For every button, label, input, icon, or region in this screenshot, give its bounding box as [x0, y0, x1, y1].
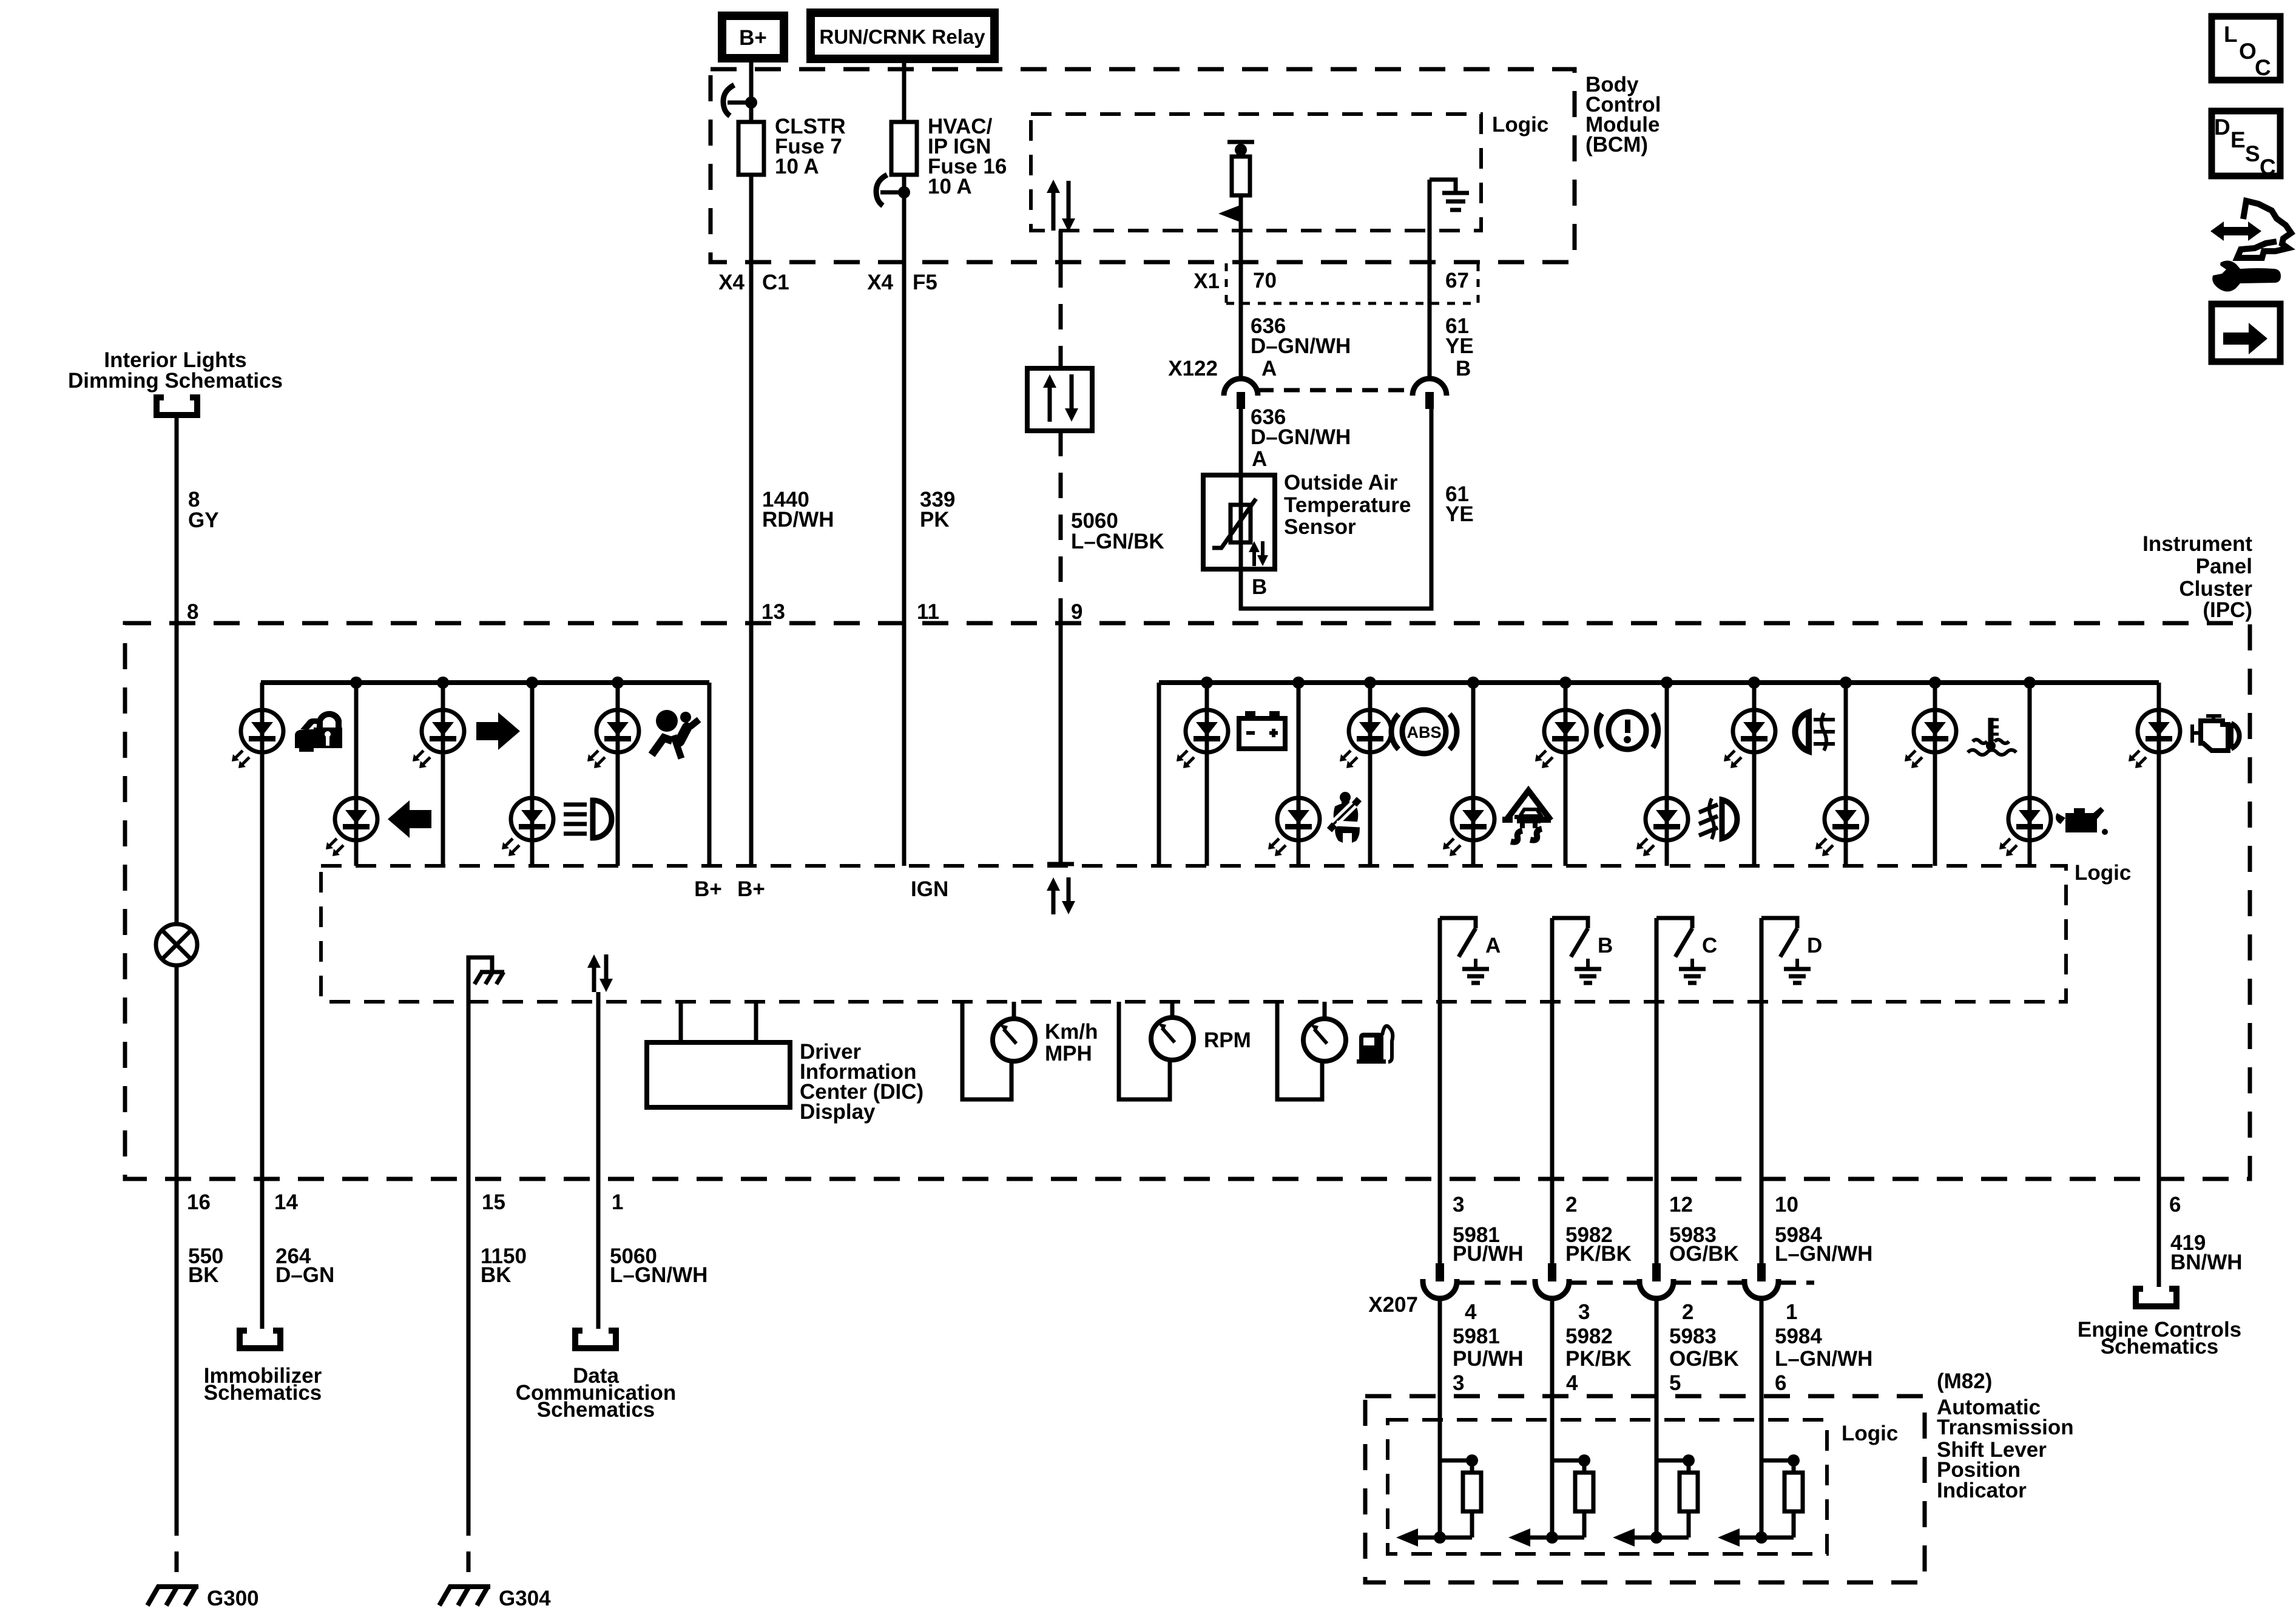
- svg-text:OG/BK: OG/BK: [1669, 1242, 1739, 1266]
- svg-text:BK: BK: [188, 1263, 219, 1287]
- svg-text:5981: 5981: [1453, 1325, 1500, 1348]
- svg-text:Outside Air: Outside Air: [1284, 471, 1398, 495]
- svg-text:Schematics: Schematics: [2101, 1335, 2219, 1359]
- wire 339 inside IPC to logic IGN: [902, 623, 907, 866]
- icon seat belt person: [1329, 792, 1360, 843]
- svg-text:S: S: [2245, 141, 2260, 166]
- svg-text:C: C: [2255, 55, 2271, 80]
- node on bus x2428: [1467, 677, 1479, 689]
- svg-text:Logic: Logic: [2075, 861, 2131, 885]
- icon fuel pump: [1357, 1026, 1393, 1064]
- svg-text:Sensor: Sensor: [1284, 515, 1356, 539]
- icon vehicle security (car with padlock): [295, 711, 342, 752]
- svg-text:D: D: [1807, 934, 1822, 957]
- svg-text:10 A: 10 A: [775, 155, 819, 178]
- svg-text:F5: F5: [913, 271, 937, 294]
- M82 name label: [1937, 1369, 2074, 1502]
- wire 5060 junction box to IPC pin 9: [1059, 431, 1063, 623]
- svg-text:YE: YE: [1445, 334, 1474, 358]
- icon brake warning: [1596, 712, 1658, 749]
- wire label 419 BN/WH: [2170, 1231, 2243, 1274]
- connector X207 terminal 4: [1423, 1263, 1457, 1298]
- lamp driver B: [1552, 918, 1601, 983]
- node on bus x2891: [1748, 677, 1760, 689]
- label Data Communication Schematics: [516, 1364, 676, 1422]
- wire bus to right-turn LED: [441, 683, 445, 866]
- wire ground to IPC pin 15: [467, 1002, 471, 1179]
- node on bus x3345: [2024, 677, 2036, 689]
- svg-text:67: 67: [1445, 269, 1469, 292]
- wire label 5982 PK/BK lower: [1565, 1325, 1632, 1371]
- serial data arrows at pin 1: [587, 954, 613, 992]
- svg-text:10: 10: [1775, 1193, 1798, 1217]
- label Interior Lights Dimming Schematics: [68, 348, 283, 393]
- svg-text:Cluster: Cluster: [2179, 577, 2252, 601]
- wire bus to security LED to IPC pin 14: [260, 683, 265, 1329]
- wire IPC pin 6 to engine controls bracket: [2157, 1179, 2161, 1287]
- M82 shift indicator dashed box: [1365, 1396, 1925, 1582]
- svg-text:E: E: [2230, 127, 2246, 152]
- svg-text:Indicator: Indicator: [1937, 1479, 2027, 1502]
- wire bus to coolant LED: [1933, 683, 1937, 866]
- LED front fog lamp: [1636, 798, 1688, 856]
- svg-text:L–GN/WH: L–GN/WH: [1775, 1242, 1872, 1266]
- svg-text:10 A: 10 A: [928, 175, 972, 198]
- wire label 5981 PU/WH lower: [1453, 1325, 1524, 1371]
- svg-text:B: B: [1598, 934, 1613, 957]
- wire IPC pin 10 to X207: [1760, 1179, 1764, 1264]
- sensor name label: [1284, 471, 1411, 539]
- svg-text:11: 11: [917, 600, 939, 624]
- LED ABS: [1340, 710, 1391, 768]
- svg-text:13: 13: [761, 600, 785, 624]
- LED malfunction indicator: [2129, 710, 2180, 768]
- M82 lamp unit D: [1718, 1454, 1803, 1547]
- svg-text:D–GN: D–GN: [275, 1263, 334, 1287]
- legend icon forward arrow box: [2212, 304, 2280, 362]
- wire bus to ABS LED: [1368, 683, 1373, 866]
- svg-text:(BCM): (BCM): [1585, 133, 1648, 157]
- svg-text:PU/WH: PU/WH: [1453, 1347, 1524, 1371]
- svg-text:3: 3: [1578, 1300, 1590, 1324]
- wire label 8 GY: [188, 488, 219, 532]
- svg-text:X4: X4: [718, 271, 745, 294]
- icon left arrow: [388, 800, 431, 838]
- wire BCM pin 67 to X122 B: [1428, 262, 1432, 379]
- svg-text:L–GN/WH: L–GN/WH: [1775, 1347, 1872, 1371]
- svg-text:Logic: Logic: [1492, 113, 1548, 137]
- svg-text:PK/BK: PK/BK: [1565, 1242, 1632, 1266]
- svg-text:Display: Display: [800, 1100, 876, 1124]
- svg-text:B: B: [1456, 357, 1471, 380]
- wire bus to airbag LED: [616, 683, 620, 866]
- svg-text:Schematics: Schematics: [204, 1381, 322, 1405]
- wire bus to oil LED: [2028, 683, 2032, 866]
- wire driver B to IPC pin 2: [1550, 918, 1555, 1179]
- speedometer gauge: [962, 1002, 1035, 1099]
- DIC label: [800, 1040, 923, 1124]
- wire right bus left end down: [1157, 683, 1161, 866]
- off-page bracket Interior Lights Dimming: [157, 397, 197, 415]
- wire B+ to CLSTR fuse: [749, 58, 754, 122]
- svg-text:OG/BK: OG/BK: [1669, 1347, 1739, 1371]
- DIC display box: [647, 1002, 790, 1107]
- wire driver A to IPC pin 3: [1438, 918, 1442, 1179]
- wire lamp to IPC pin 16 and G300: [175, 965, 179, 1515]
- svg-text:PK: PK: [920, 508, 950, 532]
- lamp driver D: [1761, 918, 1811, 983]
- wire IPC pin 1 to data bracket: [596, 1179, 601, 1329]
- svg-text:A: A: [1485, 934, 1501, 957]
- connector X1 dotted box: [1226, 263, 1478, 303]
- icon coolant temperature: [1968, 718, 2016, 755]
- BCM output arrow on pin 70 wire: [1218, 205, 1240, 222]
- dimming illumination lamp: [156, 924, 197, 965]
- wire BCM 5060 dashed to junction box: [1059, 262, 1063, 368]
- LED indicator plain: [1815, 798, 1867, 856]
- node on bus x3189: [1929, 677, 1941, 689]
- svg-text:BK: BK: [481, 1263, 512, 1287]
- node on bus x3042: [1840, 677, 1852, 689]
- svg-text:D–GN/WH: D–GN/WH: [1251, 334, 1351, 358]
- svg-text:G300: G300: [207, 1587, 259, 1610]
- svg-text:MPH: MPH: [1045, 1042, 1092, 1065]
- svg-text:Panel: Panel: [2196, 555, 2252, 578]
- node on bus x730: [437, 677, 449, 689]
- wire bus to plain LED: [1844, 683, 1848, 866]
- svg-text:C: C: [1702, 934, 1717, 957]
- svg-text:4: 4: [1566, 1371, 1578, 1395]
- connector X207 terminal 1: [1744, 1263, 1778, 1298]
- serial data junction box on 5060: [1027, 368, 1092, 431]
- svg-text:(IPC): (IPC): [2203, 598, 2252, 622]
- svg-text:8: 8: [187, 600, 198, 624]
- wire X207 to M82 pin 5: [1655, 1298, 1659, 1538]
- svg-text:RPM: RPM: [1204, 1028, 1251, 1052]
- wire bus to traction LED: [1471, 683, 1476, 866]
- svg-text:Transmission: Transmission: [1937, 1416, 2074, 1439]
- wire IPC pin 12 to X207: [1655, 1179, 1659, 1264]
- tachometer gauge: [1119, 1002, 1194, 1099]
- wire serial data to IPC pin 1: [596, 992, 601, 1179]
- legend icon LOC box: [2212, 16, 2280, 80]
- svg-text:4: 4: [1465, 1300, 1477, 1324]
- svg-text:GY: GY: [188, 508, 219, 532]
- svg-text:PK/BK: PK/BK: [1565, 1347, 1632, 1371]
- svg-text:B+: B+: [737, 877, 765, 901]
- LED left turn signal: [326, 798, 377, 856]
- label Engine Controls Schematics: [2078, 1318, 2241, 1359]
- connector X122 dashed joint line: [1258, 388, 1413, 393]
- node on bus x2258: [1364, 677, 1376, 689]
- wire BCM pin 70 to X122 A: [1239, 262, 1243, 379]
- LED seat belt: [1268, 798, 1320, 856]
- svg-text:A: A: [1252, 447, 1267, 471]
- LED security indicator: [232, 710, 283, 768]
- wire BCM logic to BCM bottom (5060 stub): [1059, 231, 1063, 262]
- chassis ground inside logic: [468, 957, 504, 1002]
- off-page bracket Engine Controls: [2136, 1289, 2176, 1306]
- LED exterior lamps: [1724, 710, 1775, 768]
- wire CLSTR fuse to IPC pin 13: [749, 175, 754, 623]
- wire label 5982 PK/BK upper: [1565, 1223, 1632, 1266]
- connector label X4 F5: [867, 271, 937, 294]
- icon airbag (person with bag): [652, 710, 699, 758]
- svg-text:16: 16: [187, 1190, 211, 1214]
- fuse block tab hook at CLSTR feed: [723, 85, 757, 116]
- wire X207 to M82 pin 6: [1760, 1298, 1764, 1538]
- svg-text:1: 1: [1786, 1300, 1797, 1324]
- wire dashed segment to G304: [467, 1515, 471, 1585]
- svg-text:6: 6: [2169, 1193, 2181, 1217]
- svg-text:O: O: [2239, 39, 2257, 64]
- svg-text:5984: 5984: [1775, 1325, 1822, 1348]
- svg-text:5: 5: [1669, 1371, 1681, 1395]
- sensor serial data arrows: [1249, 541, 1268, 566]
- svg-text:IGN: IGN: [911, 877, 948, 901]
- svg-text:(M82): (M82): [1937, 1369, 1992, 1393]
- wire driver C to IPC pin 12: [1655, 918, 1659, 1179]
- svg-text:9: 9: [1071, 600, 1082, 624]
- IPC name label: [2142, 532, 2252, 622]
- svg-text:15: 15: [482, 1190, 505, 1214]
- connector X122 terminal B arc and pin: [1413, 379, 1447, 409]
- svg-text:X4: X4: [867, 271, 893, 294]
- wire label 550 BK: [188, 1244, 223, 1287]
- IPC Logic dashed box: [321, 866, 2066, 1002]
- svg-text:A: A: [1261, 357, 1277, 380]
- LED airbag: [587, 710, 639, 768]
- wire label 636 D-GN/WH lower: [1251, 405, 1351, 449]
- wire IPC pin 15 to G304: [467, 1179, 471, 1515]
- svg-text:C: C: [2260, 155, 2276, 180]
- node on bus x2580: [1559, 677, 1572, 689]
- fuse block tab hook below HVAC fuse: [876, 175, 910, 206]
- svg-text:Km/h: Km/h: [1045, 1020, 1098, 1044]
- wire label 5060 L-GN/WH: [610, 1244, 707, 1287]
- svg-text:70: 70: [1253, 269, 1277, 292]
- svg-text:2: 2: [1565, 1193, 1577, 1217]
- M82 lamp unit P: [1396, 1454, 1481, 1547]
- wire bus to left-turn LED: [354, 683, 359, 866]
- ground G304: [439, 1585, 551, 1610]
- legend icon DESC box: [2212, 111, 2280, 180]
- connector X122 terminal A arc and pin: [1224, 379, 1258, 409]
- wire sensor B to 61 YE return: [1241, 409, 1431, 609]
- wire label 1150 BK: [481, 1244, 527, 1287]
- wire HVAC fuse to IPC pin 11: [902, 175, 907, 623]
- svg-text:Temperature: Temperature: [1284, 493, 1411, 517]
- wire label 264 D-GN: [275, 1244, 334, 1287]
- off-page bracket Data Communication: [575, 1331, 616, 1348]
- thermistor symbol inside sensor: [1212, 475, 1256, 569]
- wire bus to fog lamp LED: [1665, 683, 1669, 866]
- wire label 5984 L-GN/WH upper: [1775, 1223, 1872, 1266]
- svg-text:B+: B+: [694, 877, 722, 901]
- svg-text:12: 12: [1669, 1193, 1693, 1217]
- wire driver D to IPC pin 10: [1760, 918, 1764, 1179]
- BCM internal Logic dashed box: [1031, 114, 1481, 231]
- wire bus to high beam LED: [530, 683, 535, 866]
- icon battery: [1239, 711, 1285, 749]
- legend icon diagnostic wrench: [2210, 201, 2291, 292]
- M82 logic dashed box: [1388, 1420, 1827, 1554]
- svg-text:L–GN/WH: L–GN/WH: [610, 1263, 707, 1287]
- connector X207 terminal 2: [1639, 1263, 1673, 1298]
- node on bus x2140: [1292, 677, 1305, 689]
- icon check engine: [2192, 716, 2240, 751]
- off-page bracket Immobilizer: [240, 1331, 280, 1348]
- wire label 5983 OG/BK lower: [1669, 1325, 1739, 1371]
- LED right turn signal: [413, 710, 464, 768]
- svg-text:5983: 5983: [1669, 1325, 1717, 1348]
- wire label 61 YE lower: [1445, 482, 1474, 526]
- svg-text:Logic: Logic: [1842, 1422, 1898, 1445]
- node on bus x2747: [1661, 677, 1673, 689]
- svg-text:ABS: ABS: [1406, 723, 1441, 741]
- node on bus x1989: [1201, 677, 1213, 689]
- label Km/h MPH: [1045, 1020, 1098, 1065]
- wire 5060 inside IPC to logic with T-bar: [1047, 623, 1074, 866]
- wire X207 to M82 pin 4: [1550, 1298, 1555, 1538]
- svg-text:Schematics: Schematics: [537, 1398, 655, 1422]
- wire label 5060 L-GN/BK: [1071, 509, 1164, 553]
- wire 8 GY dimming input to IPC pin 8: [175, 418, 179, 924]
- svg-text:5982: 5982: [1565, 1325, 1613, 1348]
- connector label X4 C1: [718, 271, 789, 294]
- wire label 5984 L-GN/WH lower: [1775, 1325, 1872, 1371]
- LED high beam: [502, 798, 553, 856]
- wire X207 to M82 pin 3: [1438, 1298, 1442, 1538]
- svg-text:RD/WH: RD/WH: [762, 508, 834, 532]
- svg-text:14: 14: [274, 1190, 298, 1214]
- M82 lamp unit R: [1508, 1454, 1593, 1547]
- fuel gauge: [1277, 1002, 1346, 1099]
- LED oil pressure: [1999, 798, 2051, 856]
- node on bus x877: [526, 677, 538, 689]
- wire label 5983 OG/BK upper: [1669, 1223, 1739, 1266]
- fuse HVAC/IP IGN Fuse 16 10 A: [891, 115, 1007, 198]
- power feed B+ box: [722, 16, 784, 58]
- RUN/CRNK Relay box: [811, 13, 994, 59]
- icon oil can: [2056, 807, 2108, 835]
- wire bus to battery LED: [1205, 683, 1209, 866]
- svg-text:D–GN/WH: D–GN/WH: [1251, 425, 1351, 449]
- svg-text:L–GN/BK: L–GN/BK: [1071, 530, 1164, 553]
- icon ABS: [1391, 710, 1457, 754]
- svg-text:6: 6: [1775, 1371, 1786, 1395]
- BCM internal ground on pin 67: [1430, 180, 1469, 262]
- Instrument Panel Cluster (IPC) dashed box: [125, 623, 2250, 1179]
- svg-text:G304: G304: [499, 1587, 551, 1610]
- icon high beam headlamp: [564, 800, 612, 838]
- wire label 339 PK: [920, 488, 955, 532]
- svg-text:Instrument: Instrument: [2142, 532, 2252, 556]
- svg-text:B+: B+: [739, 26, 767, 50]
- icon exterior lamps: [1795, 712, 1835, 751]
- svg-text:X1: X1: [1194, 269, 1220, 293]
- svg-text:L: L: [2224, 22, 2238, 47]
- wire IPC pin 2 to X207: [1550, 1179, 1555, 1264]
- icon front fog lamp: [1699, 798, 1737, 839]
- Outside Air Temperature Sensor box: [1203, 475, 1275, 569]
- wire bus right end through MIL LED to pin 6: [2157, 683, 2161, 1179]
- connector X207 dashed joint line: [1459, 1281, 1814, 1285]
- svg-text:C1: C1: [762, 271, 789, 294]
- icon right arrow: [476, 712, 520, 750]
- svg-text:3: 3: [1453, 1193, 1464, 1217]
- svg-text:Dimming Schematics: Dimming Schematics: [68, 369, 283, 393]
- IPC serial data arrows at logic: [1047, 877, 1075, 914]
- lamp driver A: [1440, 918, 1489, 983]
- wire label 1440 RD/WH: [762, 488, 834, 532]
- label Immobilizer Schematics: [204, 1364, 322, 1405]
- svg-text:1: 1: [612, 1190, 623, 1214]
- wire X122 A to sensor pin A: [1239, 409, 1243, 475]
- connector X207 terminal 3: [1535, 1263, 1569, 1298]
- svg-text:D: D: [2214, 115, 2230, 140]
- LED coolant temperature: [1905, 710, 1956, 768]
- wire bus right end down to logic: [707, 683, 712, 866]
- wire label 636 D-GN/WH upper: [1251, 314, 1351, 358]
- BCM serial data bidirectional arrows: [1047, 180, 1075, 232]
- right warning lamp bus: [1159, 680, 2159, 685]
- BCM name label: [1585, 73, 1661, 157]
- svg-text:X122: X122: [1168, 357, 1218, 380]
- wire dashed segment to G300: [175, 1515, 179, 1585]
- BCM internal resistor on pin 70 output: [1227, 142, 1254, 262]
- wire bus to brake LED: [1564, 683, 1568, 866]
- icon traction control (car in triangle with skid): [1502, 791, 1551, 842]
- wire bus to seat belt LED: [1297, 683, 1301, 866]
- svg-text:BN/WH: BN/WH: [2170, 1251, 2243, 1274]
- wire 1440 inside IPC to logic B+: [749, 623, 754, 866]
- svg-text:PU/WH: PU/WH: [1453, 1242, 1524, 1266]
- svg-text:X207: X207: [1368, 1293, 1418, 1317]
- svg-text:2: 2: [1682, 1300, 1693, 1324]
- wire label 61 YE upper: [1445, 314, 1474, 358]
- svg-text:YE: YE: [1445, 502, 1474, 526]
- LED charge indicator: [1177, 710, 1228, 768]
- svg-text:3: 3: [1453, 1371, 1464, 1395]
- fuse CLSTR Fuse 7 10 A: [738, 115, 846, 178]
- Body Control Module (BCM) dashed box: [711, 69, 1575, 262]
- wire bus to lamps-on LED: [1752, 683, 1757, 866]
- wire IPC pin 3 to X207: [1438, 1179, 1442, 1264]
- LED brake warning: [1535, 710, 1587, 768]
- svg-text:RUN/CRNK Relay: RUN/CRNK Relay: [819, 25, 985, 48]
- wire RUN/CRNK relay to HVAC fuse: [902, 59, 907, 122]
- M82 lamp unit N: [1613, 1454, 1698, 1547]
- wire label 5981 PU/WH upper: [1453, 1223, 1524, 1266]
- node on bus x587: [350, 677, 362, 689]
- lamp driver C: [1656, 918, 1706, 983]
- LED traction control: [1443, 798, 1494, 856]
- ground G300: [147, 1585, 259, 1610]
- svg-text:B: B: [1252, 575, 1267, 599]
- left warning lamp bus: [261, 680, 709, 685]
- node on bus x1018: [612, 677, 624, 689]
